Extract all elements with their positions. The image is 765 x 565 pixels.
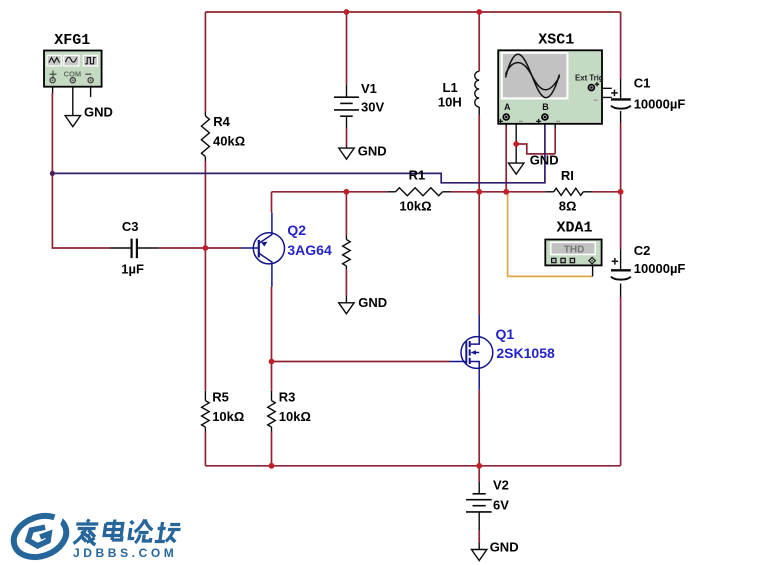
svg-text:C3: C3 <box>122 219 139 234</box>
svg-text:R3: R3 <box>279 390 296 405</box>
svg-text:10kΩ: 10kΩ <box>212 409 244 424</box>
svg-text:C2: C2 <box>634 243 651 258</box>
svg-text:10kΩ: 10kΩ <box>279 409 311 424</box>
svg-text:40kΩ: 40kΩ <box>213 134 245 149</box>
svg-text:V1: V1 <box>361 81 377 96</box>
svg-text:Q2: Q2 <box>287 222 306 238</box>
svg-text:8Ω: 8Ω <box>559 198 577 213</box>
svg-text:GND: GND <box>490 540 519 555</box>
svg-text:10kΩ: 10kΩ <box>399 199 431 214</box>
svg-text:10000µF: 10000µF <box>634 261 686 276</box>
svg-text:B: B <box>542 102 549 112</box>
svg-text:GND: GND <box>358 143 387 158</box>
svg-text:JDBBS.COM: JDBBS.COM <box>73 546 177 560</box>
svg-text:R5: R5 <box>212 390 229 405</box>
svg-text:V2: V2 <box>493 478 509 493</box>
svg-text:XFG1: XFG1 <box>54 32 90 49</box>
svg-text:GND: GND <box>358 295 387 310</box>
svg-text:C1: C1 <box>634 76 651 91</box>
svg-text:L1: L1 <box>443 80 458 95</box>
svg-text:R4: R4 <box>213 114 230 129</box>
svg-text:A: A <box>504 102 511 112</box>
svg-text:10H: 10H <box>438 95 462 110</box>
svg-text:RI: RI <box>561 168 574 183</box>
svg-text:GND: GND <box>84 104 113 119</box>
svg-text:GND: GND <box>530 152 559 167</box>
svg-text:30V: 30V <box>361 100 384 115</box>
svg-text:1µF: 1µF <box>121 262 144 277</box>
svg-text:Ext Trig: Ext Trig <box>575 73 604 82</box>
svg-text:XDA1: XDA1 <box>557 220 593 237</box>
svg-text:6V: 6V <box>493 498 509 513</box>
svg-text:2SK1058: 2SK1058 <box>496 345 555 361</box>
svg-text:3AG64: 3AG64 <box>287 242 332 258</box>
svg-text:R1: R1 <box>409 168 426 183</box>
svg-text:Q1: Q1 <box>496 326 515 342</box>
svg-text:THD: THD <box>564 245 585 256</box>
svg-text:XSC1: XSC1 <box>538 31 574 48</box>
svg-text:10000µF: 10000µF <box>634 97 686 112</box>
